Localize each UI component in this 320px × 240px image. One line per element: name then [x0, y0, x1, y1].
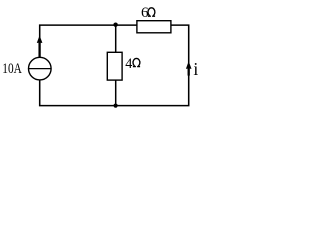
wire outer loop: [40, 25, 189, 106]
node top junction: [113, 23, 117, 27]
wire middle branch: [115, 25, 117, 106]
node bottom junction: [114, 104, 118, 108]
arrow (source current direction, up): [38, 43, 40, 57]
svg-text:4: 4: [125, 56, 132, 72]
svg-text:10A: 10A: [2, 61, 22, 77]
svg-text:i: i: [193, 59, 198, 79]
arrow current i (up): [188, 69, 190, 76]
resistor R1 4ohm: [107, 52, 122, 80]
resistor R2 6ohm: [137, 21, 171, 33]
current source U1 10A: [29, 57, 52, 80]
